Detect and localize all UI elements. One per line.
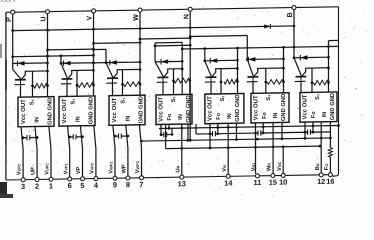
svg-text:2: 2 [35,182,39,191]
svg-text:S₁: S₁ [121,97,127,104]
svg-text:Vcc OUT: Vcc OUT [207,96,213,121]
svg-text:S₁: S₁ [171,95,177,102]
svg-text:IN: IN [126,116,132,122]
svg-text:UP: UP [31,167,37,175]
svg-text:S₁: S₁ [266,94,272,101]
svg-text:IN: IN [35,117,41,123]
svg-text:V: V [87,15,94,20]
svg-text:GND GND: GND GND [281,94,287,121]
svg-text:N: N [183,14,190,19]
svg-text:11: 11 [253,178,261,187]
svg-text:Fo: Fo [311,111,317,119]
svg-text:S₁: S₁ [315,93,321,100]
svg-text:IN: IN [76,116,82,122]
svg-text:6: 6 [68,181,72,190]
svg-text:Vcc OUT: Vcc OUT [302,94,308,119]
svg-text:VP: VP [76,166,82,174]
svg-text:14: 14 [224,178,233,187]
svg-text:IN: IN [178,114,184,120]
svg-text:WP: WP [122,164,128,173]
svg-text:15: 15 [269,178,277,187]
svg-text:⌜˝⌝˝⌜·⌝: ⌜˝⌝˝⌜·⌝ [1,0,15,5]
svg-text:GND GND: GND GND [330,93,336,120]
svg-text:16: 16 [326,177,334,186]
svg-text:IN: IN [322,112,328,118]
svg-text:13: 13 [178,179,186,188]
svg-text:GND GND: GND GND [48,98,54,125]
svg-text:Vcc OUT: Vcc OUT [21,99,27,124]
svg-text:12: 12 [317,177,325,186]
svg-text:3: 3 [21,182,25,191]
svg-text:Fo: Fo [216,112,222,120]
svg-text:B: B [287,12,294,17]
svg-text:GND GND: GND GND [186,95,192,122]
svg-text:GND GND: GND GND [139,96,145,123]
svg-text:Vcc OUT: Vcc OUT [112,97,118,122]
svg-text:GND GND: GND GND [89,97,95,124]
svg-text:8: 8 [126,180,130,189]
svg-text:GND GND: GND GND [235,94,241,121]
svg-text:S₁: S₁ [71,98,77,105]
svg-text:Vcc OUT: Vcc OUT [158,97,164,122]
svg-text:S₁: S₁ [30,98,36,105]
svg-text:9: 9 [113,180,117,189]
svg-text:Vcc OUT: Vcc OUT [62,98,68,123]
svg-text:10: 10 [279,178,287,187]
svg-text:P: P [6,17,13,22]
svg-text:Vcc OUT: Vcc OUT [253,95,259,120]
svg-text:U: U [41,16,48,21]
svg-text:5: 5 [80,181,84,190]
svg-text:S₁: S₁ [220,95,226,102]
svg-text:W: W [133,14,140,21]
svg-text:Fo: Fo [262,111,268,119]
svg-text:IN: IN [227,113,233,119]
svg-text:1: 1 [49,181,53,190]
svg-text:Fo: Fo [167,113,173,121]
svg-text:IN: IN [273,112,279,118]
